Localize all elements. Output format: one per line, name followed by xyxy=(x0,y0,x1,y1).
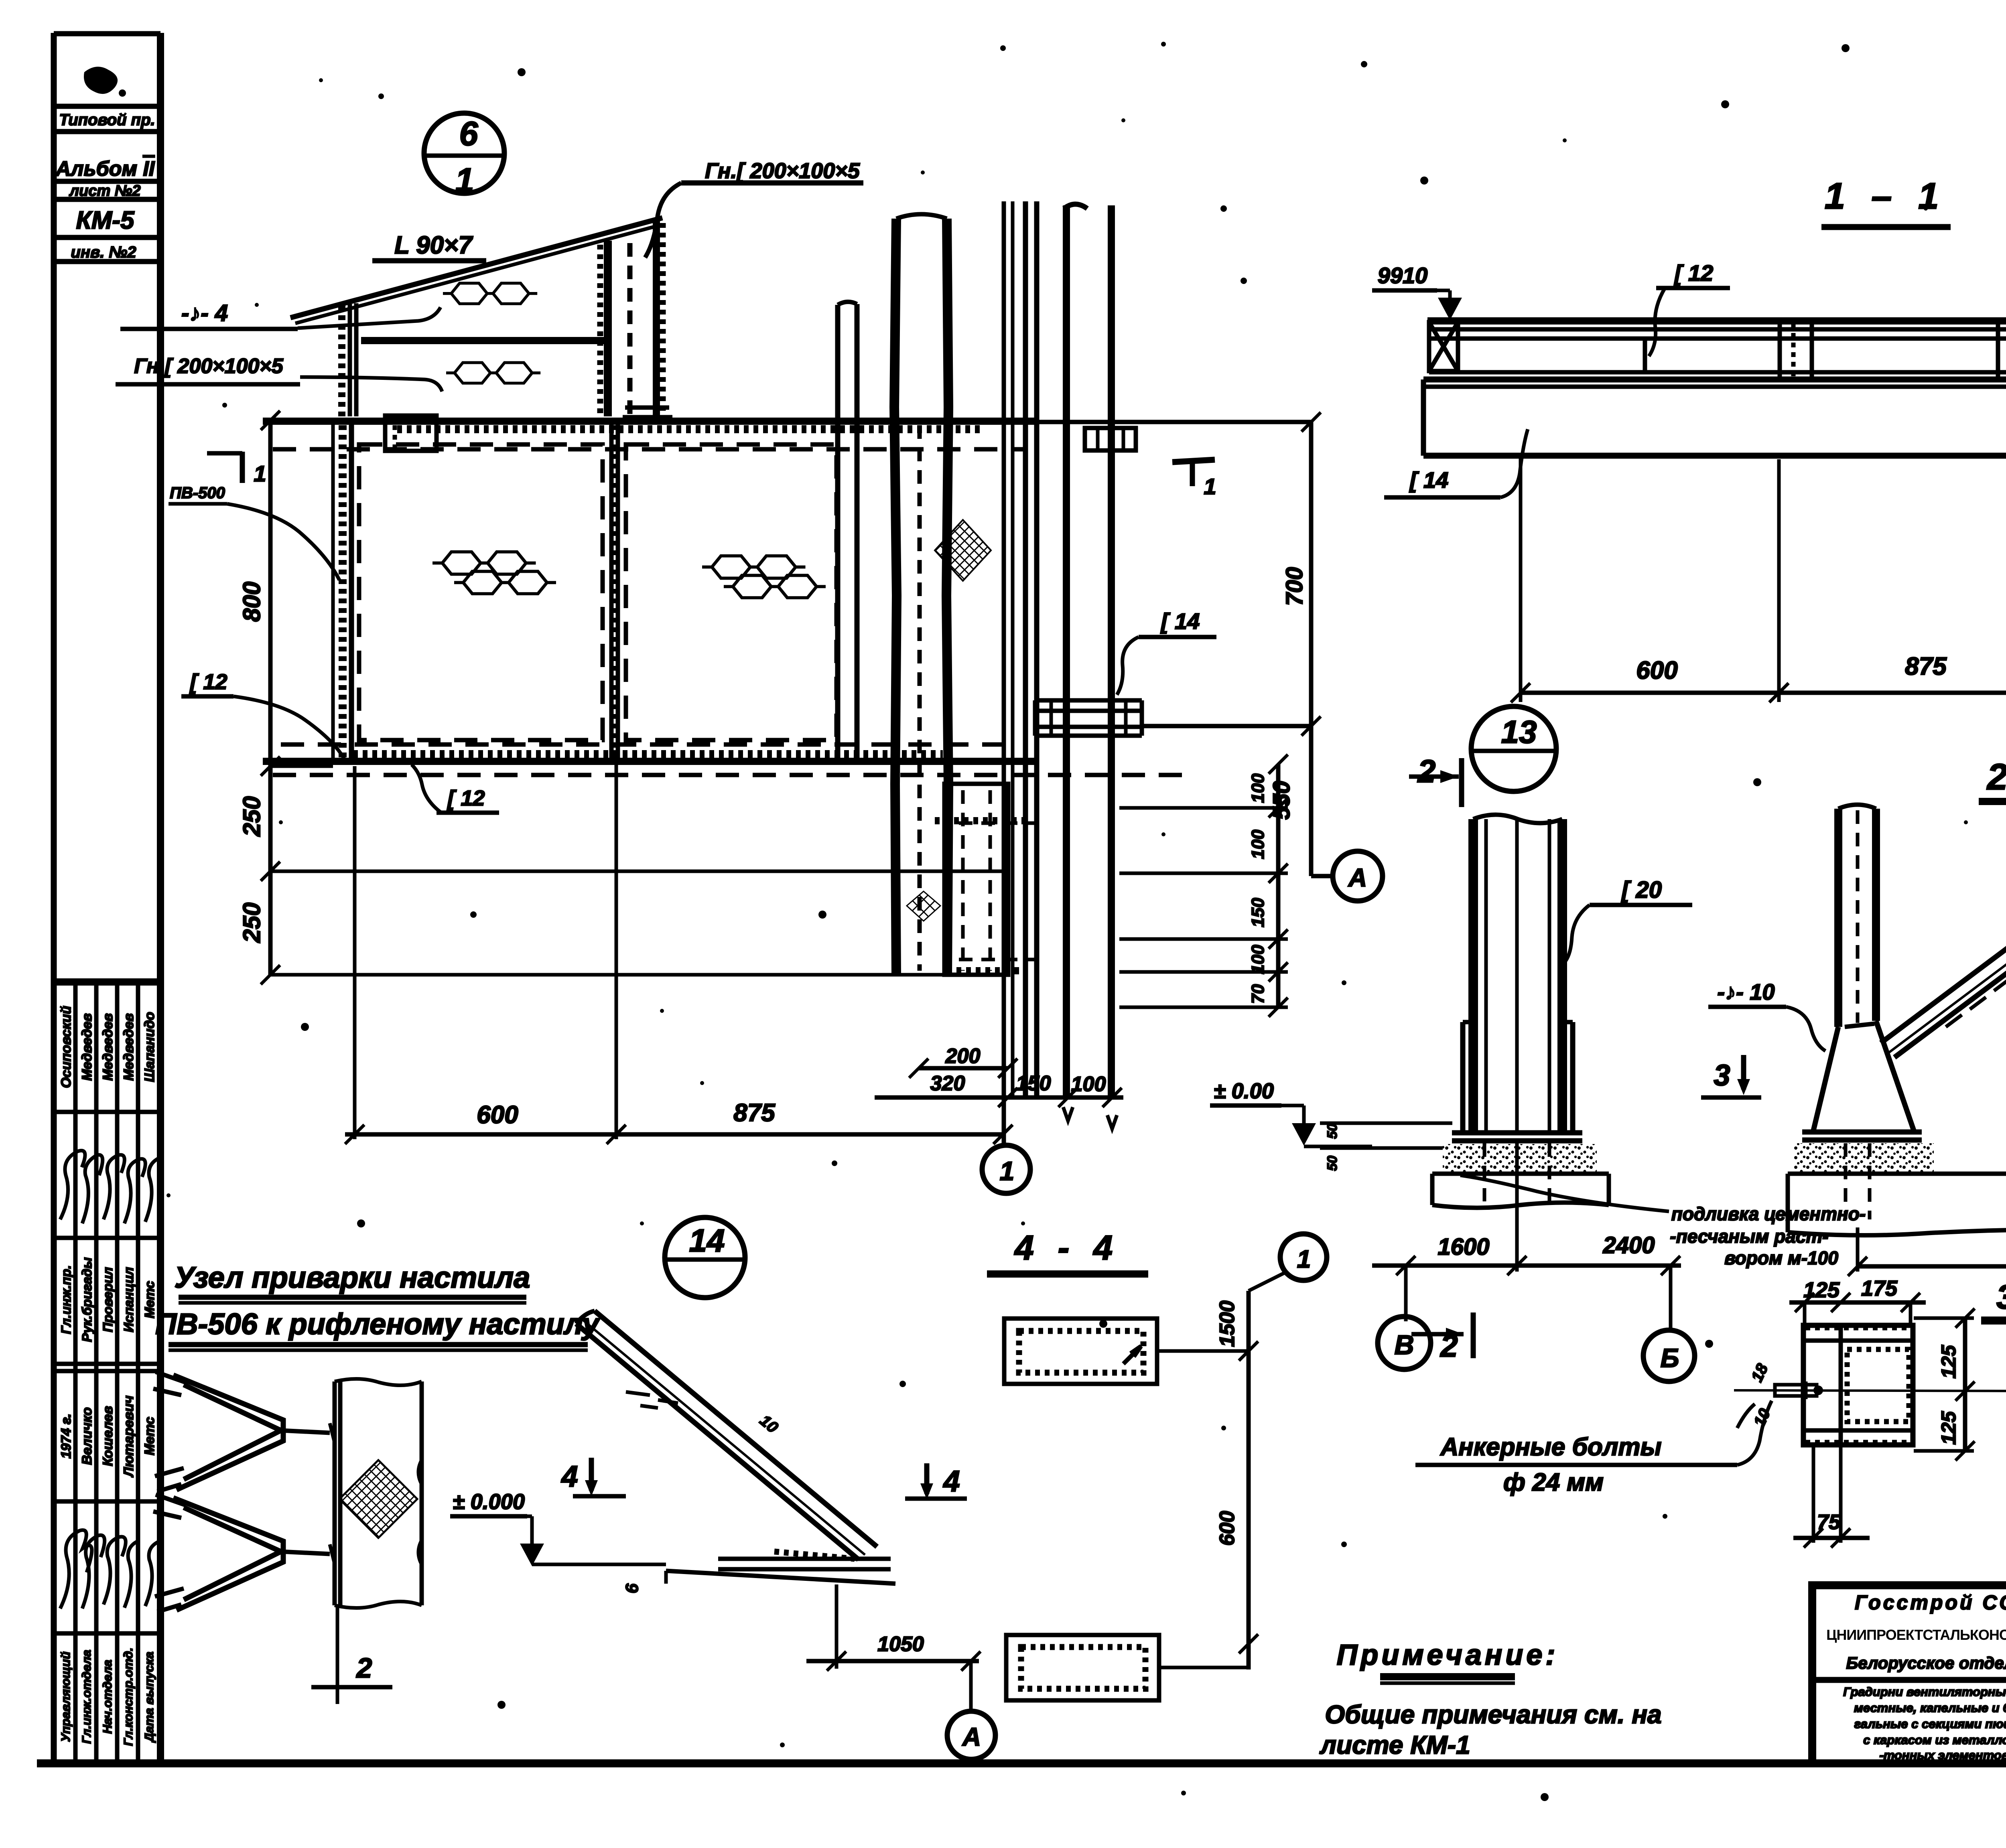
svg-text:600: 600 xyxy=(1216,1511,1239,1546)
label C14 plan xyxy=(1117,609,1216,695)
svg-text:2: 2 xyxy=(356,1652,372,1684)
svg-text:3: 3 xyxy=(1714,1059,1730,1092)
svg-text:листе КМ-1: листе КМ-1 xyxy=(1319,1730,1470,1759)
1-1 stiffener channel pair b xyxy=(1780,323,1812,378)
axis vertical line v3b xyxy=(1011,201,1015,1097)
svg-text:Кошелев: Кошелев xyxy=(100,1406,116,1466)
svg-text:[ 14: [ 14 xyxy=(1160,609,1200,634)
C14 bracket right middle xyxy=(1035,700,1142,736)
svg-text:ПВ-500: ПВ-500 xyxy=(170,484,225,502)
svg-text:6: 6 xyxy=(459,115,479,152)
4-4 top anchor plate xyxy=(1004,1319,1249,1384)
svg-text:1: 1 xyxy=(1297,1246,1311,1273)
circle axis A xyxy=(1311,851,1383,901)
crosshatch diamond on deck xyxy=(339,1460,417,1538)
svg-text:инв. №2: инв. №2 xyxy=(71,243,136,261)
svg-text:13: 13 xyxy=(1501,714,1537,750)
roof slope line xyxy=(290,218,662,318)
grating chevron lower xyxy=(153,1495,330,1612)
column pair P2 bold xyxy=(894,214,948,975)
stamp rotated names row 1 xyxy=(59,1006,157,1088)
svg-text:Нач.отдела: Нач.отдела xyxy=(100,1660,114,1734)
label [ 20 xyxy=(1565,877,1692,961)
svg-text:[ 12: [ 12 xyxy=(1674,260,1714,286)
signature table top line xyxy=(54,978,160,986)
4-4 bottom anchor plate xyxy=(1006,1635,1249,1700)
svg-text:Дата выпуска: Дата выпуска xyxy=(142,1652,156,1743)
svg-text:Рук.бригады: Рук.бригады xyxy=(79,1257,94,1342)
stamp cell line xyxy=(54,197,160,202)
level label 9910 xyxy=(1372,263,1462,320)
plan left edge serration xyxy=(339,425,347,760)
node6 right end plate xyxy=(653,219,660,416)
svg-text:1 – 1: 1 – 1 xyxy=(1825,176,1947,217)
stamp cell line xyxy=(54,179,160,184)
svg-text:9910: 9910 xyxy=(1378,263,1428,288)
node6 splice bottom xyxy=(623,408,672,417)
stamp signatures row 2 xyxy=(60,1530,160,1609)
node 14 title line 2 xyxy=(155,1307,601,1350)
deck plate vertical (rifled sheet) xyxy=(335,1379,422,1608)
svg-text:подливка цементно-: подливка цементно- xyxy=(1671,1203,1866,1224)
stamp rotated titles row 1 xyxy=(59,1257,157,1342)
svg-text:875: 875 xyxy=(733,1099,776,1127)
svg-text:70: 70 xyxy=(1248,984,1268,1004)
1-1 beam top flange xyxy=(1427,314,2006,339)
node 14 title line 1 xyxy=(175,1261,530,1303)
plan hex grating left panel xyxy=(432,552,556,594)
dim 1050 xyxy=(806,1584,981,1671)
svg-text:Общие примечания см. на: Общие примечания см. на xyxy=(1325,1700,1661,1729)
plan left edge channel xyxy=(349,421,354,762)
node circle 6/1 xyxy=(424,113,504,199)
circle axis Б xyxy=(1643,1266,1695,1381)
svg-text:-песчаным раст-: -песчаным раст- xyxy=(1670,1226,1828,1247)
node6 right plate vertical bold xyxy=(604,241,612,416)
diagonal brace L75x6 xyxy=(1881,854,2006,1057)
plan corner plate top left xyxy=(385,416,437,451)
dim chain 100-100-150-100-70 xyxy=(1248,755,1288,1017)
section title 3-3 xyxy=(1981,1278,2006,1321)
label L 90x7 xyxy=(372,231,486,261)
svg-text:600: 600 xyxy=(1636,657,1677,684)
circle axis 1 of 4-4 xyxy=(1249,1234,1327,1291)
sheet bottom border xyxy=(37,1759,2006,1767)
svg-text:Шапанидо: Шапанидо xyxy=(142,1012,157,1082)
svg-text:14: 14 xyxy=(689,1223,725,1258)
plan bottom dashed upper xyxy=(281,742,1003,747)
2-2 dim line 1450/875 xyxy=(1848,1227,2006,1276)
plan hex grating right panel xyxy=(702,556,826,598)
svg-text:1500: 1500 xyxy=(1216,1300,1239,1347)
title block left cell divider xyxy=(1812,1677,2006,1683)
svg-text:местные, капельные и брыз-: местные, капельные и брыз- xyxy=(1854,1701,2006,1715)
1-1 stiffener a xyxy=(1643,339,1647,372)
примечание body xyxy=(1319,1700,1661,1759)
svg-text:с каркасом из металлоде-: с каркасом из металлоде- xyxy=(1863,1733,2006,1747)
circle axis 1 plan xyxy=(982,1145,1030,1193)
svg-text:вором м-100: вором м-100 xyxy=(1724,1248,1838,1268)
plan bottom dashed lower xyxy=(273,773,1188,777)
svg-text:Медведев: Медведев xyxy=(121,1013,136,1081)
svg-text:Гн.[ 200×100×5: Гн.[ 200×100×5 xyxy=(134,355,283,378)
strut base plate xyxy=(622,1552,895,1593)
svg-text:[ 12: [ 12 xyxy=(189,670,227,694)
grout note text xyxy=(1460,1175,1866,1268)
1-1 flange midline xyxy=(1428,327,2006,332)
svg-text:ПВ-506 к рифленому настилу: ПВ-506 к рифленому настилу xyxy=(155,1307,601,1341)
plan left edge thin xyxy=(331,421,335,762)
plan middle splice verticals xyxy=(611,421,618,762)
dim 700 vertical xyxy=(1142,412,1321,876)
1-1 beam bottom flange xyxy=(1423,372,2006,379)
svg-text:4: 4 xyxy=(942,1465,960,1498)
svg-text:175: 175 xyxy=(1861,1276,1898,1300)
svg-text:100: 100 xyxy=(1248,830,1268,859)
node circle 14 xyxy=(665,1217,745,1298)
svg-text:Гл.констр.отд.: Гл.констр.отд. xyxy=(121,1647,135,1746)
dim 320/150/100 xyxy=(875,1072,1123,1129)
small crosshatch patch lower xyxy=(907,891,940,921)
svg-text:± 0.000: ± 0.000 xyxy=(453,1490,525,1514)
1-1 dim line 600/875 xyxy=(1511,457,2006,702)
svg-text:ЦНИИПРОЕКТСТАЛЬКОНСТРУКЦИЯ: ЦНИИПРОЕКТСТАЛЬКОНСТРУКЦИЯ xyxy=(1826,1627,2006,1643)
svg-text:Метс: Метс xyxy=(142,1281,157,1318)
node6 mid horizontal plate line xyxy=(361,337,608,344)
section title 2-2 xyxy=(1979,757,2006,801)
roof slope line 2 xyxy=(295,225,662,323)
2-2 left column xyxy=(1463,815,1573,1135)
deck weld ticks xyxy=(330,1423,335,1564)
svg-text:50: 50 xyxy=(1325,1124,1340,1139)
signature table verticals xyxy=(75,982,138,1763)
3-3 centerline xyxy=(1734,1390,2006,1392)
dashed line under top edge xyxy=(273,447,1027,452)
2-2 left footing block xyxy=(1432,1143,1609,1208)
level mark 0.00 plan right xyxy=(1210,1079,1372,1171)
svg-text:КМ-5: КМ-5 xyxy=(76,207,135,234)
svg-text:125: 125 xyxy=(1937,1411,1960,1445)
svg-text:Величко: Величко xyxy=(79,1407,95,1465)
left dim line 800/250/250 xyxy=(238,411,333,984)
3-3 bolt left xyxy=(1737,1361,1823,1430)
label C12 inside plan xyxy=(412,765,499,813)
stamp cell line xyxy=(54,104,160,109)
node6 hex grating upper xyxy=(443,283,537,304)
svg-text:А: А xyxy=(962,1722,981,1751)
stamp cell line xyxy=(54,129,160,134)
svg-text:2: 2 xyxy=(1417,753,1436,789)
1-1 lower beam C14 outline xyxy=(1423,379,2006,456)
anchor bolts note xyxy=(1415,1401,1772,1496)
column dashed centerline xyxy=(918,425,922,971)
svg-text:875: 875 xyxy=(1905,653,1947,680)
stamp signatures row 1 xyxy=(60,1150,160,1223)
примечание title xyxy=(1337,1639,1559,1683)
2-2 middle grout xyxy=(1793,1143,1934,1172)
svg-text:Гл.инж.пр.: Гл.инж.пр. xyxy=(59,1265,73,1334)
svg-text:50: 50 xyxy=(1325,1156,1340,1171)
svg-text:3 - 3: 3 - 3 xyxy=(1996,1278,2006,1316)
svg-text:[ 12: [ 12 xyxy=(447,786,485,810)
2-2 middle column xyxy=(1838,805,1876,1027)
svg-text:1600: 1600 xyxy=(1437,1234,1489,1260)
dim 200 xyxy=(909,1045,1017,1078)
3-3 dim 125/125 right of left channel xyxy=(1914,1308,1975,1461)
svg-text:[ 14: [ 14 xyxy=(1409,467,1449,493)
signature table row lines xyxy=(54,1112,160,1633)
svg-text:Госстрой СССР: Госстрой СССР xyxy=(1855,1591,2006,1614)
horizontal row line 250 upper xyxy=(270,870,1008,873)
label Гн.С 200х100х5 left xyxy=(116,355,442,392)
svg-text:1: 1 xyxy=(1000,1156,1015,1186)
label 2 below deck xyxy=(311,1605,392,1704)
svg-text:2400: 2400 xyxy=(1602,1232,1655,1258)
svg-text:Испанцил: Испанцил xyxy=(121,1267,136,1333)
label C14 in 1-1 xyxy=(1384,429,1528,497)
section title 4-4 xyxy=(987,1229,1148,1274)
svg-text:700: 700 xyxy=(1281,567,1308,606)
svg-text:1974 г.: 1974 г. xyxy=(59,1414,74,1459)
label C12 in 1-1 xyxy=(1649,260,1730,356)
stamp rotated titles row 2 xyxy=(59,1647,156,1746)
section marker 2 upper xyxy=(1409,753,1462,807)
svg-text:гальные с секциями пющ. 6м²: гальные с секциями пющ. 6м² xyxy=(1854,1717,2006,1731)
svg-text:Б: Б xyxy=(1661,1343,1679,1373)
svg-text:Медведев: Медведев xyxy=(79,1013,95,1081)
svg-text:Альбом II: Альбом II xyxy=(55,157,155,181)
section marker 3 left xyxy=(1701,1055,1761,1097)
svg-text:2 - 2: 2 - 2 xyxy=(1986,757,2006,797)
plan bottom dim line 600/875 xyxy=(345,764,1013,1144)
svg-text:Гл.инж.отдела: Гл.инж.отдела xyxy=(79,1650,93,1744)
weld serration under top edge xyxy=(397,425,983,433)
svg-text:Узел приварки настила: Узел приварки настила xyxy=(175,1261,530,1294)
svg-text:Примечание:: Примечание: xyxy=(1337,1639,1559,1671)
2-2 dim line 1600/2400 xyxy=(1372,1139,1681,1275)
label Гн.С 200х100х5 top right xyxy=(645,159,863,258)
svg-text:100: 100 xyxy=(1071,1073,1106,1096)
svg-text:А: А xyxy=(1348,863,1367,892)
title block outer frame xyxy=(1812,1585,2006,1763)
svg-text:125: 125 xyxy=(1937,1345,1960,1379)
section marker 4 top xyxy=(560,1458,626,1496)
section title 1-1 xyxy=(1821,176,1951,227)
2-2 long footing strip xyxy=(1788,1143,2006,1235)
2-2 middle base plate xyxy=(1802,1132,1922,1140)
plan left panel dashed outline xyxy=(359,444,603,740)
plan right panel dashed outline xyxy=(626,444,837,740)
2-2 middle column trapezoid base xyxy=(1813,1021,1914,1130)
svg-text:250: 250 xyxy=(238,796,265,837)
svg-text:320: 320 xyxy=(930,1072,965,1095)
T1 section marker xyxy=(1172,460,1216,499)
svg-text:6: 6 xyxy=(622,1583,642,1593)
svg-text:1050: 1050 xyxy=(877,1633,924,1656)
svg-text:150: 150 xyxy=(1248,898,1268,927)
svg-text:-♪- 10: -♪- 10 xyxy=(1717,979,1775,1004)
svg-text:Лютаревич: Лютаревич xyxy=(121,1396,136,1478)
svg-text:Типовой пр.: Типовой пр. xyxy=(59,111,155,129)
3-3 left channel section xyxy=(1803,1325,1913,1445)
section marker 2 lower xyxy=(1411,1312,1473,1363)
node6 right plate dashed xyxy=(627,243,633,415)
axis vertical line v3 xyxy=(1002,201,1006,1146)
2-2 ground line left xyxy=(1320,1123,1452,1148)
svg-text:В: В xyxy=(1394,1330,1414,1360)
grating chevron upper xyxy=(153,1372,330,1491)
dim chain extension lines xyxy=(1119,808,1288,1007)
svg-text:1: 1 xyxy=(1204,474,1216,499)
svg-text:Осиповский: Осиповский xyxy=(59,1006,74,1088)
svg-text:Метс: Метс xyxy=(142,1417,157,1455)
axis vertical line v4 pair xyxy=(1023,201,1028,1097)
thin vertical v6 xyxy=(1108,205,1115,1099)
svg-text:600: 600 xyxy=(477,1101,518,1129)
svg-text:Медведев: Медведев xyxy=(100,1013,116,1081)
lower right bracket in plan xyxy=(935,784,1039,975)
svg-text:ф 24 мм: ф 24 мм xyxy=(1503,1469,1604,1496)
node6 hex grating lower xyxy=(446,363,540,383)
label -K4 weld xyxy=(120,300,441,329)
svg-text:Белорусское отделение: Белорусское отделение xyxy=(1846,1653,2006,1672)
stamp cell line xyxy=(54,235,160,240)
svg-text:200: 200 xyxy=(945,1045,981,1068)
svg-text:800: 800 xyxy=(238,582,265,622)
label -10 weld left xyxy=(1708,979,1825,1051)
svg-text:Анкерные болты: Анкерные болты xyxy=(1440,1433,1661,1461)
svg-text:100: 100 xyxy=(1248,773,1268,803)
svg-text:1: 1 xyxy=(455,161,474,199)
section marker 1 top left xyxy=(207,452,266,486)
circle axis A bottom xyxy=(947,1661,995,1759)
1-1 stiffener pair c xyxy=(1998,322,2006,379)
stamp cell line xyxy=(54,259,160,264)
svg-text:Управляющий: Управляющий xyxy=(59,1651,73,1742)
label ПВ-500 xyxy=(169,484,339,580)
3-3 dim 75 left xyxy=(1793,1445,1870,1548)
svg-text:4 - 4: 4 - 4 xyxy=(1014,1229,1120,1267)
T1 bracket top rect xyxy=(1085,428,1136,450)
svg-text:1: 1 xyxy=(254,461,266,486)
plan top edge beam xyxy=(263,418,1039,425)
svg-text:75: 75 xyxy=(1817,1511,1841,1534)
svg-text:Проверил: Проверил xyxy=(100,1267,115,1332)
svg-text:± 0.00: ± 0.00 xyxy=(1214,1079,1274,1103)
diagonal strut node 14 xyxy=(576,1311,877,1560)
svg-text:100: 100 xyxy=(1248,945,1268,974)
2-2 left footing grout xyxy=(1443,1144,1597,1173)
svg-text:L 90×7: L 90×7 xyxy=(394,231,473,259)
circle axis В xyxy=(1378,1266,1431,1369)
svg-text:[ 20: [ 20 xyxy=(1621,877,1662,903)
right panel splice verticals P1 xyxy=(838,302,857,762)
plan top edge extension to dim 700 xyxy=(1039,420,1311,424)
section marker 4 bottom left xyxy=(905,1463,967,1499)
svg-text:-тонных элементов: -тонных элементов xyxy=(1879,1748,2006,1762)
svg-text:150: 150 xyxy=(1016,1072,1051,1095)
svg-text:250: 250 xyxy=(238,903,265,943)
level 0.000 node14 xyxy=(450,1490,666,1566)
label C12 left outside xyxy=(181,670,344,759)
svg-text:-♪- 4: -♪- 4 xyxy=(181,300,228,326)
stamp rotated names row 2 xyxy=(59,1396,157,1478)
node6 left gusset verticals xyxy=(342,303,356,418)
left stamp strip borders xyxy=(54,33,160,1763)
title small description lines xyxy=(1843,1685,2006,1762)
crosshatch patch between columns xyxy=(935,520,991,581)
stamp smudge xyxy=(84,67,118,94)
thin vertical v5 xyxy=(1064,204,1087,1099)
node6 right plate serration xyxy=(597,245,603,413)
plan bottom edge beam xyxy=(263,758,1039,765)
3-3 dim 125/175 xyxy=(1789,1276,1926,1328)
svg-text:Градирни вентиляторные 28г-50: Градирни вентиляторные 28г-50 xyxy=(1843,1685,2006,1699)
node circle 13 xyxy=(1471,706,1556,791)
4-4 vertical dim 1500/600 xyxy=(1216,1291,1258,1669)
plan bottom serration xyxy=(353,750,943,758)
2-2 left column base plate xyxy=(1452,1133,1582,1141)
svg-text:4: 4 xyxy=(560,1460,578,1493)
svg-text:Гн.[ 200×100×5: Гн.[ 200×100×5 xyxy=(705,159,860,183)
1-1 beam left end channel xyxy=(1429,322,1458,371)
horizontal row line 250 lower xyxy=(270,973,1008,977)
